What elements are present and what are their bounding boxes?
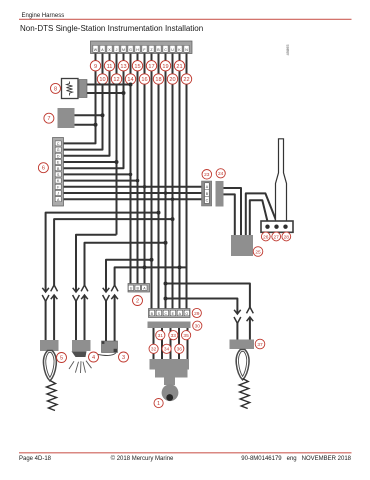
junction dot on wire 5 (122, 91, 126, 95)
svg-text:18: 18 (155, 77, 161, 83)
key knob (162, 384, 179, 401)
svg-text:Page 4D-18: Page 4D-18 (19, 456, 52, 462)
left connector pin 8 wire to middle connector (64, 186, 203, 188)
junction dot w8 (143, 265, 147, 269)
second lanyard connector pair right (chevron + arrow up) (247, 307, 254, 340)
svg-text:30: 30 (195, 324, 201, 330)
junction dot w11 lower (164, 297, 168, 301)
wire 9 (to key switch connector) (151, 54, 153, 309)
key switch boot bar (148, 322, 191, 329)
callout 28 (282, 232, 291, 241)
junction dot w12 (171, 217, 175, 221)
callout 6 (38, 163, 48, 173)
harness branch pair2 left wire (76, 235, 117, 292)
resistor connector block (79, 80, 87, 98)
svg-text:35: 35 (183, 333, 189, 339)
svg-text:J: J (57, 192, 59, 196)
callout 22 (181, 74, 191, 84)
svg-text:34: 34 (164, 347, 170, 353)
svg-text:10: 10 (99, 77, 105, 83)
wire 12 (172, 54, 174, 309)
pin dot 3 (283, 225, 287, 229)
svg-text:H: H (136, 48, 139, 52)
resistor zigzag (67, 82, 73, 96)
svg-text:19: 19 (162, 64, 168, 70)
callout 4 (89, 352, 99, 362)
svg-text:14: 14 (127, 77, 133, 83)
callout 1 (154, 399, 163, 408)
svg-text:33: 33 (171, 333, 177, 339)
svg-text:11: 11 (107, 64, 113, 70)
left connector pin 9 wire to middle connector (64, 192, 203, 194)
trim lever (antenna) (276, 139, 287, 222)
second lanyard connector pair left (arrow down + socket) (234, 310, 241, 340)
top connector pin boxes (93, 45, 189, 52)
callout 13 (118, 61, 128, 71)
connector symbol pair2 right (81, 285, 88, 340)
wire 3 (64, 54, 110, 156)
callout 16 (139, 74, 149, 84)
callout 24 (216, 169, 225, 178)
footer red rule (19, 451, 352, 454)
second lanyard stop switch cap (230, 340, 255, 350)
callout 23 (202, 170, 212, 180)
callout 32 (149, 344, 158, 353)
harness branch pair3 left wire (also feeds accessory connector) (106, 260, 152, 292)
wire bar to module box (upper) (224, 188, 242, 236)
callout 12 (111, 74, 121, 84)
svg-text:C: C (57, 142, 60, 146)
junction dot on wire 2 (101, 113, 105, 117)
key switch body (150, 359, 190, 370)
left connector pin 6 branch wire (64, 173, 131, 175)
harness branch pair2 right wire (85, 243, 166, 286)
callout 5 (57, 353, 67, 363)
wire 13 (179, 54, 181, 309)
module item 7 body (58, 108, 75, 128)
svg-text:24: 24 (218, 171, 224, 177)
wire 4 (64, 54, 117, 163)
svg-text:9: 9 (94, 64, 97, 70)
callout 35 (182, 331, 191, 340)
callout 29 (192, 308, 201, 317)
key switch harness branch to second lanyard (upper) (166, 284, 250, 308)
svg-text:12: 12 (113, 77, 119, 83)
junction dot on wire 1 (94, 123, 98, 127)
key switch harness branch to second lanyard (lower) (166, 299, 238, 314)
wire to trim connector pin 1 (250, 200, 268, 236)
svg-text:3: 3 (122, 355, 125, 361)
junction dot w10 (157, 211, 161, 215)
top connector bar (91, 41, 193, 54)
callout 37 (255, 339, 265, 349)
wire 8 (144, 54, 146, 284)
svg-text:25: 25 (255, 249, 261, 255)
connector symbol pair3 left (103, 288, 110, 342)
junction dot pin8/w8 (143, 185, 147, 189)
svg-text:C: C (206, 199, 209, 203)
svg-text:7: 7 (47, 116, 50, 122)
callout 20 (167, 74, 177, 84)
wire 10 (158, 54, 160, 309)
svg-text:29: 29 (194, 311, 200, 317)
callout 10 (97, 74, 107, 84)
svg-text:1: 1 (157, 401, 160, 407)
lanyard stop switch item 5 cap (40, 340, 59, 351)
junction dot w12 on pin10 line (171, 197, 175, 201)
pin dot 1 (265, 225, 269, 229)
callout 21 (174, 61, 184, 71)
callout 30 (193, 321, 202, 330)
harness branch pair3 right wire (also feeds accessory connector) (115, 267, 187, 285)
svg-text:36: 36 (177, 347, 183, 353)
svg-text:4: 4 (92, 355, 95, 361)
callout 15 (132, 61, 142, 71)
key switch wires (154, 328, 188, 359)
svg-text:16: 16 (141, 77, 147, 83)
lanyard coiled cord (47, 381, 58, 411)
callout 2 (133, 296, 143, 306)
svg-text:N: N (185, 48, 188, 52)
callout 17 (146, 61, 156, 71)
resistor item 8 body (62, 79, 79, 99)
svg-text:2: 2 (136, 299, 139, 305)
middle boot bar item 24 (216, 181, 224, 207)
accessory connector item 2 (128, 284, 150, 293)
callout 3 (119, 352, 129, 362)
wire to trim connector pin 2 (246, 193, 277, 236)
svg-text:J: J (116, 48, 118, 52)
callout 25 (253, 247, 263, 257)
junction dot pin6 (129, 173, 133, 177)
svg-text:17: 17 (148, 64, 154, 70)
junction dot w13 (178, 265, 182, 269)
horn body (72, 351, 87, 357)
svg-text:15: 15 (134, 64, 140, 70)
wire 11 (165, 54, 167, 309)
connector symbol pair1 right (chevron + arrow up) (51, 285, 58, 340)
wire 2 (64, 54, 103, 150)
svg-text:26: 26 (263, 234, 269, 240)
left connector item 6 strip (53, 138, 64, 207)
wire 1 (pin W to connector pin C) (64, 54, 96, 144)
svg-text:8: 8 (54, 86, 57, 92)
svg-text:C: C (164, 48, 167, 52)
junction dot w9 lower (150, 258, 154, 262)
svg-text:W: W (94, 48, 98, 52)
callout 36 (175, 344, 184, 353)
harness branch pair1 left wire (46, 213, 159, 292)
callout 18 (153, 74, 163, 84)
horn sound rays (69, 361, 92, 373)
junction dot w11 (164, 241, 168, 245)
harness branch pair1 right wire (54, 219, 172, 285)
pin dot 2 (274, 225, 278, 229)
svg-text:U: U (171, 48, 174, 52)
connector symbol pair1 left (arrow down + socket) (42, 288, 49, 340)
left connector pin 10 wire to middle connector (64, 198, 203, 200)
svg-text:31: 31 (158, 333, 164, 339)
connector symbol pair2 left (73, 288, 80, 340)
callout 11 (104, 61, 114, 71)
svg-text:D: D (57, 154, 60, 158)
svg-text:23: 23 (204, 172, 210, 178)
junction dot on wire 6 (129, 83, 133, 87)
svg-text:20: 20 (169, 77, 175, 83)
wire 5 (64, 54, 124, 169)
module box item 25 (231, 235, 253, 256)
callout 33 (169, 331, 178, 340)
resistor item 8 wires (87, 84, 131, 86)
svg-text:22: 22 (183, 77, 189, 83)
callout 34 (162, 344, 171, 353)
svg-text:5: 5 (60, 356, 63, 362)
junction dot pin7 (136, 179, 140, 183)
callout 14 (125, 74, 135, 84)
svg-text:M: M (122, 48, 125, 52)
wire 6 (continues to connector item 2) (130, 54, 132, 284)
callout 9 (90, 61, 100, 71)
item 3 pigtail wire (98, 353, 116, 356)
svg-text:32: 32 (151, 347, 157, 353)
junction dot w11 upper (164, 282, 168, 286)
wire 4 lower extension (116, 162, 118, 235)
second lanyard coiled cord (239, 379, 250, 409)
lanyard clip loop (43, 351, 56, 381)
module item 7 wires (75, 114, 103, 116)
svg-text:U: U (130, 287, 133, 291)
svg-text:37: 37 (257, 342, 263, 348)
svg-text:© 2018 Mercury Marine: © 2018 Mercury Marine (111, 455, 174, 462)
connector symbol pair3 right (111, 285, 118, 342)
svg-text:13: 13 (120, 64, 126, 70)
middle connector item 23 strip (202, 181, 212, 206)
junction dot on wire 4 (115, 160, 119, 164)
callout 26 (261, 232, 270, 241)
callout 27 (272, 232, 281, 241)
callout 7 (44, 113, 54, 123)
svg-text:21: 21 (176, 64, 182, 70)
wire 14 (186, 54, 188, 309)
svg-text:G: G (129, 48, 132, 52)
wire 7 (137, 54, 139, 284)
callout 8 (51, 83, 61, 93)
svg-text:90-8M0146179 eng NOVEMBER: 90-8M0146179 eng NOVEMBER 2018 (241, 456, 351, 462)
svg-text:Non-DTS Single-Station Instrum: Non-DTS Single-Station Instrumentation I… (20, 24, 203, 33)
second lanyard clip loop (236, 350, 249, 380)
svg-text:49865: 49865 (285, 44, 290, 56)
callout 31 (156, 331, 165, 340)
left connector pin 7 branch wire (64, 180, 138, 182)
svg-text:28: 28 (284, 234, 290, 240)
junction dot w11 on pin9 line (164, 191, 168, 195)
header red rule (19, 18, 352, 21)
svg-text:G: G (57, 148, 60, 152)
callout 19 (160, 61, 170, 71)
svg-text:Engine Harness: Engine Harness (22, 13, 65, 19)
warning horn item 4 cap (72, 340, 91, 351)
trim connector 3-pin (261, 221, 293, 232)
accessory switch item 3 (102, 341, 118, 353)
svg-text:6: 6 (42, 166, 45, 172)
svg-text:27: 27 (274, 234, 280, 240)
svg-text:C: C (164, 312, 167, 316)
key switch connector strip (149, 309, 191, 318)
svg-text:O: O (185, 312, 188, 316)
wire bar to module box (lower) (224, 194, 235, 236)
